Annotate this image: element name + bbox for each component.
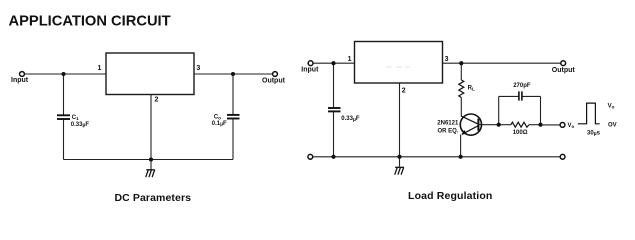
svg-text:1: 1 (98, 65, 102, 72)
svg-text:C1: C1 (72, 115, 79, 121)
wire Co branch upper (232, 74, 234, 115)
svg-text:Load Regulation: Load Regulation (408, 190, 493, 202)
wire 100ohm right (529, 124, 541, 126)
wire to Vo terminal (541, 124, 561, 126)
svg-text:270pF: 270pF (513, 83, 531, 89)
rail terminal right (right circuit) (560, 154, 565, 159)
wire base lead (479, 124, 498, 126)
Vo terminal (560, 123, 565, 128)
resistor 100ohm (511, 122, 529, 127)
svg-text:Output: Output (552, 67, 576, 74)
svg-text:Vo: Vo (568, 123, 575, 129)
wire cap branch upper (right circuit) (333, 63, 335, 107)
wire RL upper (460, 63, 462, 80)
junction dot base-RC left (497, 123, 501, 127)
svg-text:Input: Input (11, 77, 29, 84)
junction dot output branch (left circuit) (231, 72, 235, 76)
junction dot input cap branch (right circuit) (331, 61, 335, 65)
wire 270pF left (499, 95, 519, 97)
junction dot input branch (left circuit) (61, 72, 65, 76)
output terminal (right circuit) (561, 61, 566, 66)
capacitor C1 (57, 115, 70, 119)
wire input to box (right circuit) (313, 62, 354, 64)
svg-text:RL: RL (468, 85, 475, 91)
svg-text:OR EQ.: OR EQ. (438, 129, 459, 135)
junction dot cap to rail (right circuit) (331, 155, 335, 159)
capacitor Co (227, 115, 240, 119)
wire box to output (right circuit) (443, 62, 561, 64)
svg-text:Vo: Vo (608, 104, 615, 110)
emitter arrowhead (462, 130, 467, 135)
wire RL lower to collector (460, 98, 462, 117)
svg-text:2N6121: 2N6121 (437, 121, 459, 127)
wire C1 branch lower (63, 119, 65, 159)
wire bottom rail (left circuit) (64, 159, 234, 161)
pulse waveform (578, 103, 600, 124)
svg-text:0.33µF: 0.33µF (71, 122, 90, 129)
rail terminal left (right circuit) (308, 154, 313, 159)
svg-text:Output: Output (262, 77, 286, 84)
wire emitter to rail (460, 135, 462, 157)
regulator box U1 (106, 53, 194, 95)
junction dot pin2 to rail (right circuit) (397, 155, 401, 159)
resistor RL (459, 80, 464, 98)
output terminal (left circuit) (273, 72, 278, 77)
wire Co branch lower (232, 119, 234, 160)
junction dot RL branch (459, 61, 463, 65)
svg-text:3: 3 (196, 65, 200, 72)
wire RC bracket left vertical (498, 96, 500, 124)
wire box to output (left circuit) (194, 73, 272, 75)
input terminal (left circuit) (20, 72, 25, 77)
svg-text:0.1µF: 0.1µF (212, 121, 227, 128)
wire RC bracket right vertical (540, 96, 542, 124)
svg-text:1: 1 (348, 56, 352, 63)
svg-text:30µs: 30µs (587, 130, 601, 137)
wire ground stub (right circuit) (399, 157, 401, 167)
wire bottom rail (right circuit) (313, 156, 560, 158)
svg-text:Co: Co (214, 114, 221, 120)
wire C1 branch upper (63, 74, 65, 115)
wire pin2 stub (right circuit) (399, 83, 401, 157)
ground symbol (left circuit) (146, 170, 155, 177)
svg-text:100Ω: 100Ω (513, 130, 528, 136)
svg-text:Input: Input (301, 66, 319, 73)
wire 100ohm left (499, 124, 511, 126)
transistor Q1 2N6121 (460, 114, 481, 135)
wire 270pF right (523, 95, 541, 97)
junction dot ground rail (left circuit) (149, 157, 153, 161)
ghost marks inside box U2 (386, 66, 410, 68)
svg-text:0.33µF: 0.33µF (341, 116, 360, 123)
svg-text:2: 2 (155, 97, 159, 104)
svg-text:OV: OV (608, 123, 617, 129)
svg-text:2: 2 (402, 88, 406, 95)
junction dot RC right (538, 123, 542, 127)
capacitor 270pF (519, 91, 522, 100)
ground symbol (right circuit) (395, 167, 404, 174)
wire ground stub (left circuit) (150, 160, 152, 171)
input terminal (right circuit) (308, 61, 313, 66)
junction dot emitter to rail (459, 155, 463, 159)
capacitor 0.33uF (right circuit) (328, 108, 341, 111)
svg-text:DC Parameters: DC Parameters (115, 192, 192, 204)
svg-text:APPLICATION CIRCUIT: APPLICATION CIRCUIT (9, 13, 171, 29)
svg-text:3: 3 (445, 56, 449, 63)
regulator box U2 (355, 42, 443, 84)
wire input to box (left circuit) (25, 73, 106, 75)
wire pin2 stub (left circuit) (150, 95, 152, 160)
wire cap branch lower (right circuit) (333, 112, 335, 157)
